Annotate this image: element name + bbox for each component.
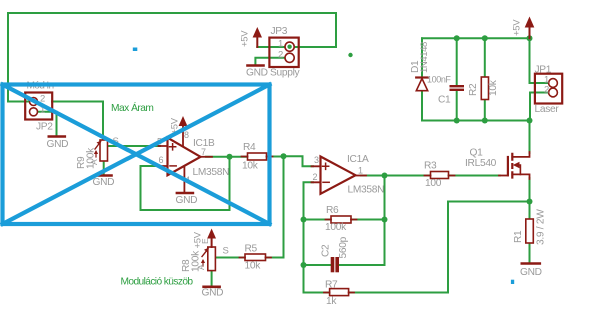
annotation blue dot left	[133, 48, 138, 52]
mosfet Q1 source lead	[512, 174, 529, 179]
potentiometer R9 body	[100, 140, 108, 161]
connector JP3 pin 2 circle	[285, 53, 294, 62]
op-amp IC1B +5V arrowhead	[179, 116, 188, 126]
svg-text:Q1: Q1	[470, 148, 484, 159]
svg-text:1N4148: 1N4148	[419, 42, 430, 73]
diode D1 triangle	[416, 79, 427, 91]
capacitor C2 plates	[331, 257, 335, 272]
wire JP2 pin1 to ground	[37, 112, 57, 136]
potentiometer R8 A-end arrow glyph	[202, 261, 204, 267]
svg-text:GND: GND	[93, 177, 115, 188]
connector JP2 pin 2 circle	[30, 98, 38, 106]
connector JP2 box	[25, 93, 52, 120]
ground bar IC1B pin4	[177, 192, 193, 195]
junction Q1 source R1 node	[527, 199, 533, 205]
wire D1 bottom	[421, 91, 423, 121]
annotation blue dot right	[511, 280, 514, 284]
connector JP1 pin 1 circle	[549, 79, 558, 88]
svg-text:+5V: +5V	[512, 19, 523, 36]
svg-text:2: 2	[278, 50, 283, 61]
supply +5V arrow at JP1	[529, 23, 531, 38]
mosfet Q1 gate pin stub	[499, 175, 508, 177]
svg-text:C1: C1	[438, 95, 451, 106]
wire node to R1 top	[529, 202, 531, 220]
potentiometer R8 wiper arrow	[202, 249, 208, 257]
wire IC1A output to R3	[361, 175, 431, 177]
wire C2 left	[304, 264, 332, 266]
connector JP3 box	[269, 38, 298, 67]
svg-text:10k: 10k	[488, 79, 499, 96]
svg-text:2: 2	[313, 172, 318, 182]
svg-text:1k: 1k	[326, 296, 337, 307]
capacitor C1 plates	[450, 85, 465, 87]
wire Q1 source to node	[529, 178, 531, 202]
svg-text:C2: C2	[321, 244, 332, 257]
ground bar R1	[522, 262, 540, 265]
svg-text:3: 3	[314, 155, 319, 165]
svg-text:GND: GND	[176, 195, 198, 206]
svg-text:IC1B: IC1B	[193, 138, 215, 149]
ground bar R9	[96, 174, 112, 177]
connector JP3 pin 1 circle	[285, 42, 294, 51]
wire R7 right to Q1 source node	[349, 202, 530, 293]
connector JP2 pin 1 circle	[30, 108, 38, 116]
svg-text:100: 100	[425, 178, 442, 189]
op-amp IC1B output pin stub	[201, 156, 213, 158]
svg-text:100nF: 100nF	[427, 75, 451, 85]
junction R2 top bus	[482, 35, 488, 41]
svg-text:IRL540: IRL540	[465, 158, 497, 169]
svg-text:S: S	[223, 246, 229, 257]
junction drain bus node	[527, 118, 533, 124]
svg-text:8: 8	[184, 130, 189, 140]
wire R5 left to R8 wiper	[216, 257, 246, 259]
wire R6 right	[351, 219, 385, 221]
resistor R7 pin stubs	[324, 292, 354, 294]
svg-text:3.9 / 2W: 3.9 / 2W	[536, 209, 547, 245]
junction IC1B output node	[227, 154, 233, 160]
wire top bus D1 C1 R2 +5V	[422, 37, 530, 39]
potentiometer R9 A-end arrow glyph	[95, 152, 97, 158]
wire node down to R5 right	[266, 156, 284, 257]
op-amp IC1B V+ pin 8 line	[182, 122, 184, 147]
svg-text:JP3: JP3	[271, 26, 288, 37]
resistor R5 body	[245, 254, 266, 261]
mosfet Q1 drain lead	[512, 152, 529, 157]
ground bar JP2	[49, 135, 65, 138]
potentiometer R9 wiper arrow	[95, 142, 101, 149]
junction R6 left node	[301, 217, 307, 223]
supply +5V arrow at R8	[211, 234, 213, 247]
junction R4 IC1A+ R5 node	[281, 153, 287, 159]
svg-text:1: 1	[278, 39, 283, 50]
svg-text:10k: 10k	[242, 161, 259, 172]
wire R2 top	[484, 38, 486, 77]
svg-text:R7: R7	[325, 280, 338, 291]
svg-text:Laser: Laser	[535, 104, 560, 115]
wire IC1A -input down to R7 left	[304, 182, 331, 292]
resistor R1 body	[526, 219, 534, 243]
resistor R6 pin stubs	[326, 219, 357, 221]
svg-text:560p: 560p	[338, 236, 349, 258]
svg-text:R2: R2	[468, 83, 479, 96]
supply +5V arrow at JP3	[256, 33, 258, 47]
svg-text:Moduláció küszöb: Moduláció küszöb	[121, 277, 194, 288]
op-amp IC1A plus sign	[323, 163, 329, 169]
op-amp IC1B input pin stubs	[159, 146, 168, 166]
wire IC1B feedback loop output to -input	[141, 157, 230, 210]
mosfet Q1 channel dashes	[511, 153, 513, 179]
wire bottom bus D1 C1 R2 JP1pin2	[422, 120, 530, 122]
resistor R7 body	[330, 289, 349, 296]
junction R6 right node	[382, 217, 388, 223]
op-amp IC1B triangle	[168, 138, 201, 176]
svg-text:GND: GND	[202, 288, 224, 299]
junction IC1A output node	[382, 173, 388, 179]
diode D1 cathode bar	[416, 76, 428, 78]
junction C2 left node	[301, 262, 307, 268]
wire R4 to node	[267, 156, 284, 158]
svg-text:JP2: JP2	[36, 122, 53, 133]
svg-text:LM358N: LM358N	[193, 167, 230, 178]
op-amp IC1B plus sign	[170, 144, 176, 150]
resistor R5 pin stubs	[240, 257, 272, 259]
wire C1 bottom	[456, 91, 458, 121]
svg-text:Supply: Supply	[270, 68, 301, 79]
op-amp IC1A triangle	[321, 157, 356, 194]
ground bar R8	[204, 285, 220, 288]
resistor R6 body	[331, 216, 351, 223]
wire node to IC1A +input	[284, 156, 314, 166]
wire R6 left	[304, 219, 332, 221]
connector JP1 box	[535, 74, 562, 104]
junction JP3 pin1	[287, 44, 292, 49]
svg-text:+5V: +5V	[240, 30, 251, 47]
svg-text:R3: R3	[424, 161, 437, 172]
svg-text:1: 1	[358, 166, 363, 176]
ground bar JP3	[248, 64, 264, 67]
junction R2 bottom bus	[482, 118, 488, 124]
svg-text:E: E	[200, 238, 210, 244]
resistor R4 body	[248, 153, 267, 160]
op-amp IC1B minus sign	[170, 165, 176, 167]
svg-text:R4: R4	[243, 142, 256, 153]
junction +5V top bus	[527, 35, 533, 41]
op-amp IC1A minus sign	[323, 181, 329, 183]
wire R3 to Q1 gate	[449, 175, 501, 177]
junction C1 top bus	[454, 35, 460, 41]
mosfet Q1 gate bar	[507, 157, 509, 175]
svg-text:10k: 10k	[245, 261, 262, 272]
svg-text:A: A	[196, 264, 206, 270]
junction stray dot near JP3	[348, 53, 352, 57]
resistor R2 body	[481, 77, 488, 100]
wire JP3 pin2 to ground	[255, 58, 289, 65]
svg-text:GND: GND	[246, 68, 268, 79]
wire R1 bottom to ground	[529, 243, 531, 263]
svg-text:6: 6	[159, 155, 164, 165]
wire R2 bottom	[484, 100, 486, 121]
junction dot JP3 pin1 inner	[287, 45, 291, 49]
resistor R3 body	[431, 172, 449, 179]
wire D1 top	[421, 38, 423, 77]
wire C1 top	[456, 38, 458, 85]
annotation blue crossed rectangle	[3, 85, 270, 225]
op-amp IC1B GND pin 4 line	[183, 166, 185, 192]
svg-text:100k: 100k	[325, 222, 347, 233]
svg-text:GND: GND	[47, 139, 69, 150]
svg-text:R1: R1	[513, 230, 524, 243]
svg-text:GND: GND	[520, 267, 542, 278]
wire JP3 +5V to pin1	[257, 46, 293, 48]
op-amp IC1A input pin stubs	[312, 166, 321, 182]
op-amp IC1A output pin stub	[356, 175, 367, 177]
wire IC1B output to R4	[206, 156, 248, 158]
wire R8 bottom to ground	[211, 271, 213, 286]
wire JP2 pin2 to R9 pot top	[52, 102, 103, 141]
resistor R4 pin stubs	[242, 156, 273, 158]
wire output node down to C2 right	[339, 176, 385, 266]
wire +5V down to JP1 pin1	[530, 38, 550, 83]
junction C1 bottom bus	[454, 118, 460, 124]
svg-text:Max Áram: Max Áram	[111, 101, 153, 114]
svg-text:R6: R6	[326, 205, 339, 216]
resistor R3 pin stubs	[425, 175, 455, 177]
wire JP1 pin2 down to bus	[530, 93, 549, 121]
mosfet Q1 body arrow	[517, 165, 520, 174]
wire R9 bottom to ground	[103, 161, 105, 175]
svg-text:IC1A: IC1A	[347, 154, 369, 165]
svg-text:2: 2	[544, 85, 549, 96]
svg-text:LM358N: LM358N	[348, 185, 385, 196]
svg-text:A: A	[89, 159, 99, 165]
connector JP1 pin 2 circle	[549, 88, 558, 97]
svg-text:R5: R5	[245, 244, 258, 255]
wire Q1 drain up to bus	[529, 121, 531, 154]
wire R9 wiper to IC1B +input	[108, 145, 161, 147]
potentiometer R8 body	[208, 247, 216, 271]
wire +5V top loop from JP3 pin1	[8, 13, 336, 102]
